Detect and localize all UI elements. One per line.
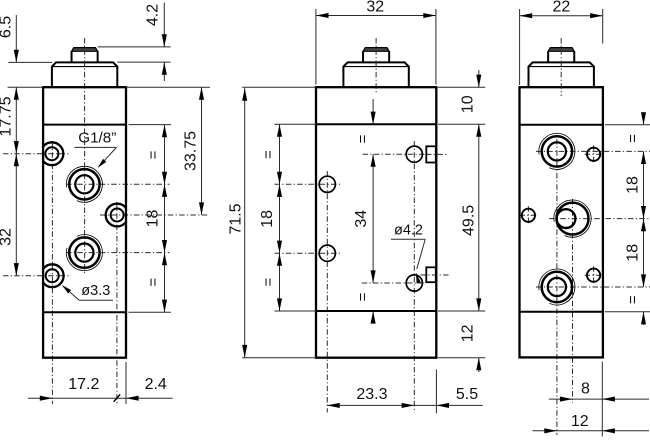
- svg-text:=: =: [354, 134, 371, 143]
- svg-text:ø3.3: ø3.3: [81, 283, 110, 299]
- svg-text:71.5: 71.5: [227, 203, 244, 234]
- svg-text:18: 18: [259, 210, 276, 228]
- svg-text:5.5: 5.5: [456, 386, 478, 403]
- svg-text:ø4.2: ø4.2: [394, 222, 423, 238]
- svg-text:12: 12: [460, 324, 477, 342]
- svg-text:32: 32: [0, 228, 14, 246]
- svg-text:23.3: 23.3: [356, 386, 387, 403]
- svg-text:18: 18: [625, 244, 642, 262]
- svg-text:=: =: [625, 295, 642, 304]
- svg-text:22: 22: [553, 0, 571, 15]
- svg-text:8: 8: [581, 381, 590, 398]
- svg-text:=: =: [354, 292, 371, 301]
- svg-text:=: =: [145, 150, 162, 159]
- svg-text:49.5: 49.5: [460, 205, 477, 236]
- svg-text:=: =: [260, 150, 277, 159]
- svg-text:18: 18: [625, 176, 642, 194]
- svg-text:12: 12: [571, 413, 589, 430]
- svg-text:=: =: [145, 278, 162, 287]
- svg-text:=: =: [625, 134, 642, 143]
- svg-text:6.5: 6.5: [0, 16, 14, 38]
- svg-text:33.75: 33.75: [183, 131, 200, 171]
- svg-text:18: 18: [145, 210, 162, 228]
- svg-text:32: 32: [366, 0, 384, 15]
- svg-text:2.4: 2.4: [145, 376, 167, 393]
- svg-text:G1/8”: G1/8”: [78, 130, 116, 147]
- svg-text:10: 10: [459, 95, 476, 113]
- svg-text:34: 34: [353, 210, 370, 228]
- svg-text:4.2: 4.2: [145, 4, 162, 26]
- svg-text:17.75: 17.75: [0, 96, 14, 136]
- svg-text:=: =: [260, 277, 277, 286]
- svg-text:17.2: 17.2: [68, 376, 99, 393]
